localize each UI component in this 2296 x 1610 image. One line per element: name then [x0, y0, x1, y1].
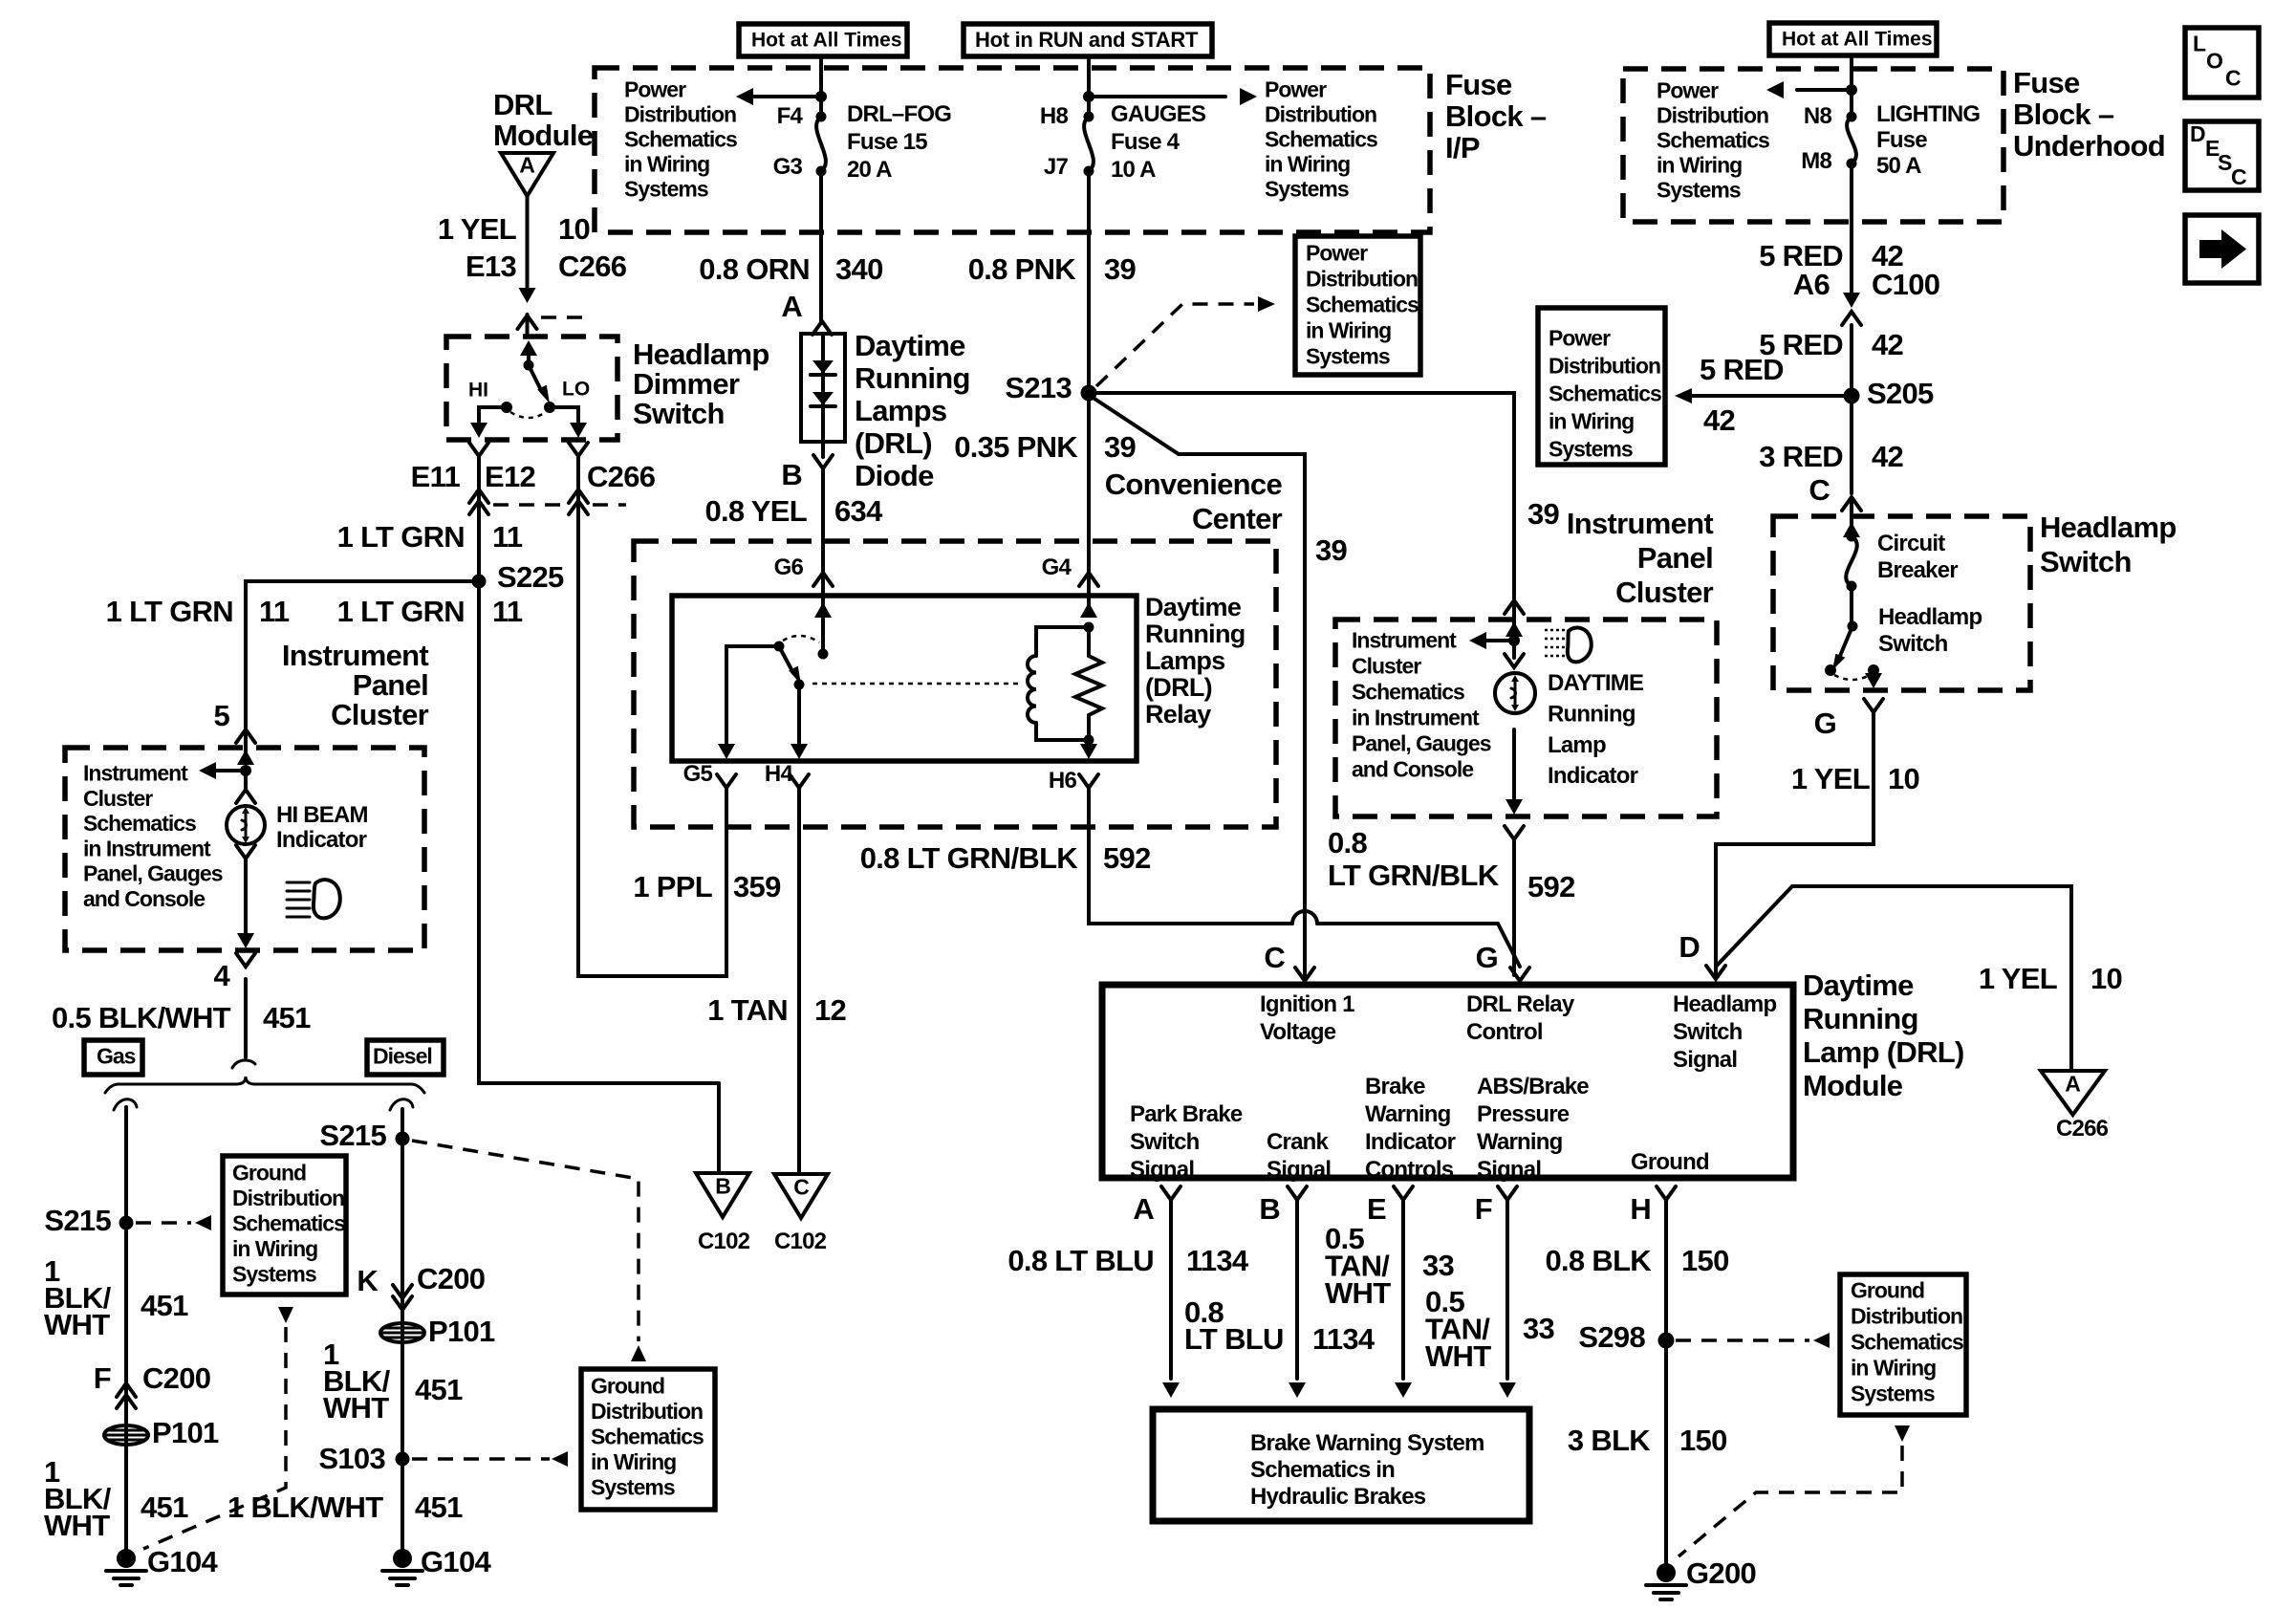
- pin H6: [1049, 768, 1098, 794]
- svg-text:39: 39: [1104, 430, 1137, 464]
- ground distribution box (S298): [1840, 1274, 1966, 1415]
- label Instrument Panel Cluster (left): [282, 639, 429, 731]
- pin G4: [1042, 555, 1098, 586]
- svg-text:Ground: Ground: [591, 1374, 664, 1399]
- title box Hot at All Times (I/P): [739, 24, 907, 56]
- title box Hot in RUN and START: [964, 24, 1212, 56]
- svg-text:359: 359: [733, 870, 781, 903]
- wire DRL module to dimmer switch (1 YEL 10): [519, 196, 536, 337]
- fuse LIGHTING 50A: [1847, 112, 1857, 169]
- wire E11 to S225 to B triangle: [479, 456, 719, 1173]
- svg-text:P101: P101: [152, 1416, 219, 1449]
- pin J7: [1044, 154, 1069, 180]
- splice S205: [1844, 377, 1935, 410]
- svg-text:Power: Power: [1549, 326, 1611, 351]
- svg-text:10: 10: [2090, 962, 2122, 995]
- svg-text:Schematics: Schematics: [232, 1211, 345, 1236]
- label Power Distribution Schematics in Wiring Systems (H8): [1265, 77, 1377, 202]
- svg-text:Circuit: Circuit: [1877, 531, 1945, 556]
- svg-text:Systems: Systems: [232, 1262, 316, 1287]
- svg-text:Distribution: Distribution: [1851, 1304, 1962, 1329]
- svg-text:451: 451: [141, 1490, 188, 1524]
- ground G104 (gas): [106, 1545, 218, 1585]
- svg-text:Instrument: Instrument: [1352, 628, 1457, 653]
- svg-text:F: F: [1475, 1192, 1492, 1226]
- svg-text:Daytime: Daytime: [855, 329, 965, 362]
- label Instrument Cluster Schematics in Instrument Panel Gauges and Console (right): [1352, 628, 1491, 782]
- svg-text:Module: Module: [1803, 1069, 1903, 1102]
- svg-text:Schematics: Schematics: [1549, 381, 1661, 406]
- labels E11 E12 C266: [411, 460, 656, 493]
- svg-text:E12: E12: [485, 460, 535, 493]
- svg-text:Fuse: Fuse: [2013, 66, 2080, 99]
- label DRL-FOG Fuse 15 20 A: [847, 101, 951, 183]
- svg-text:39: 39: [1527, 497, 1560, 531]
- svg-text:Warning: Warning: [1365, 1101, 1451, 1127]
- svg-text:Running: Running: [1548, 701, 1635, 727]
- label GAUGES Fuse 4 10 A: [1111, 101, 1206, 183]
- svg-text:0.8 BLK: 0.8 BLK: [1545, 1244, 1652, 1277]
- svg-text:Instrument: Instrument: [1567, 507, 1714, 540]
- svg-text:in Wiring: in Wiring: [1657, 153, 1742, 178]
- label Fuse Block I/P: [1445, 68, 1547, 164]
- svg-text:Convenience: Convenience: [1105, 468, 1283, 501]
- svg-text:50 A: 50 A: [1876, 153, 1921, 179]
- svg-text:A6: A6: [1793, 268, 1830, 301]
- svg-text:F4: F4: [777, 103, 804, 129]
- relay coil: [1028, 622, 1094, 746]
- wire hot feed to fuse F4: [815, 56, 827, 117]
- svg-text:in Wiring: in Wiring: [591, 1449, 676, 1474]
- pin G (headlamp switch): [1814, 699, 1883, 740]
- svg-text:Distribution: Distribution: [591, 1399, 703, 1424]
- svg-text:Schematics: Schematics: [1265, 127, 1377, 152]
- dashed reference S103 to ground distribution: [412, 1451, 568, 1467]
- svg-text:Relay: Relay: [1145, 700, 1211, 729]
- svg-text:in Wiring: in Wiring: [1306, 318, 1391, 343]
- svg-text:Ground: Ground: [1851, 1278, 1924, 1303]
- svg-text:Voltage: Voltage: [1260, 1019, 1336, 1045]
- ground G200: [1646, 1556, 1756, 1599]
- label Headlamp Switch (big): [2040, 511, 2177, 578]
- label 3 RED 42: [1759, 440, 1903, 473]
- pin G6: [774, 555, 833, 586]
- svg-text:D: D: [2190, 121, 2206, 146]
- svg-text:HI: HI: [468, 380, 488, 402]
- svg-text:1134: 1134: [1186, 1244, 1249, 1277]
- svg-text:in Wiring: in Wiring: [1851, 1356, 1936, 1381]
- svg-text:10: 10: [1888, 762, 1919, 795]
- svg-text:Switch: Switch: [1130, 1129, 1200, 1155]
- label 1 LT GRN 11 (below S225): [337, 595, 523, 628]
- svg-text:L: L: [2193, 32, 2206, 56]
- dashed reference S213 to power distribution: [1096, 296, 1275, 386]
- module pin label Ground: [1631, 1149, 1709, 1175]
- svg-text:WHT: WHT: [1325, 1276, 1391, 1310]
- label 1 BLK/WHT 451 (gas lower): [44, 1455, 188, 1542]
- svg-text:Brake Warning System: Brake Warning System: [1250, 1430, 1484, 1456]
- svg-text:E13: E13: [466, 250, 517, 283]
- ground G104 (diesel): [382, 1545, 491, 1585]
- svg-text:42: 42: [1872, 440, 1903, 473]
- svg-text:G: G: [1814, 707, 1836, 740]
- module pin label Ignition 1 Voltage: [1260, 991, 1354, 1045]
- inline connector P101 (gas): [104, 1416, 219, 1449]
- svg-text:1 YEL: 1 YEL: [1791, 762, 1870, 795]
- svg-text:Cluster: Cluster: [331, 698, 429, 731]
- svg-text:LT BLU: LT BLU: [1184, 1322, 1284, 1356]
- svg-text:LIGHTING: LIGHTING: [1876, 101, 1980, 127]
- dimmer LO contact: [544, 379, 590, 414]
- wire fuse G3 to diode: [819, 171, 823, 323]
- svg-text:Ground: Ground: [232, 1161, 306, 1186]
- svg-text:1 PPL: 1 PPL: [633, 870, 712, 903]
- svg-text:Gas: Gas: [97, 1044, 136, 1069]
- svg-text:340: 340: [835, 252, 883, 286]
- svg-text:in Wiring: in Wiring: [1265, 152, 1350, 177]
- module pin label Brake Warning Indicator Controls: [1365, 1074, 1456, 1183]
- label 0.5 TAN/WHT 33 (F): [1425, 1285, 1555, 1373]
- svg-text:42: 42: [1872, 328, 1903, 361]
- pin 4: [213, 959, 230, 992]
- dimmer travel arc: [510, 412, 546, 418]
- relay H4 contact wire: [791, 680, 808, 760]
- svg-text:G6: G6: [774, 555, 804, 580]
- connector triangle A (C266 bottom): [2041, 1071, 2109, 1142]
- svg-text:1 YEL: 1 YEL: [438, 212, 516, 246]
- svg-text:DRL Relay: DRL Relay: [1466, 991, 1575, 1017]
- svg-text:0.8: 0.8: [1328, 826, 1367, 859]
- relay coil link (dashed): [812, 683, 1023, 685]
- svg-text:C102: C102: [698, 1229, 750, 1254]
- pin 5: [213, 699, 229, 732]
- svg-text:4: 4: [213, 959, 230, 992]
- wire hot to lighting fuse: [1846, 56, 1857, 117]
- svg-text:Panel: Panel: [353, 668, 428, 702]
- svg-text:(DRL): (DRL): [1145, 673, 1212, 702]
- splice S213: [1005, 371, 1096, 404]
- svg-text:G4: G4: [1042, 555, 1072, 580]
- svg-text:Block –: Block –: [1445, 99, 1547, 133]
- svg-text:and Console: and Console: [1352, 757, 1473, 782]
- pin D (module): [1679, 930, 1725, 979]
- svg-text:Fuse: Fuse: [1445, 68, 1512, 101]
- svg-text:C266: C266: [587, 460, 656, 493]
- svg-text:S215: S215: [44, 1204, 111, 1237]
- svg-text:J7: J7: [1044, 154, 1069, 180]
- svg-text:Power: Power: [1657, 78, 1719, 103]
- svg-text:ABS/Brake: ABS/Brake: [1477, 1074, 1589, 1099]
- wire diode to relay G6: [821, 442, 825, 574]
- svg-text:(DRL): (DRL): [855, 426, 932, 460]
- svg-text:Systems: Systems: [591, 1475, 675, 1500]
- svg-text:and Console: and Console: [83, 886, 205, 911]
- svg-text:LO: LO: [562, 379, 590, 401]
- svg-text:Fuse: Fuse: [1876, 127, 1927, 153]
- svg-text:Cluster: Cluster: [1615, 576, 1714, 609]
- svg-text:N8: N8: [1804, 103, 1832, 129]
- label HI BEAM Indicator: [276, 802, 368, 853]
- HI BEAM indicator lamp: [227, 806, 265, 844]
- label 39 (indicator wire): [1527, 497, 1560, 531]
- module pin label Crank Signal: [1267, 1129, 1331, 1183]
- splice S225: [472, 560, 565, 594]
- relay G6 contact arrow: [814, 574, 832, 660]
- splice S103: [318, 1442, 409, 1475]
- label Headlamp Switch (small): [1878, 604, 1982, 657]
- svg-text:Signal: Signal: [1673, 1047, 1737, 1073]
- svg-text:K: K: [357, 1264, 379, 1297]
- svg-text:Systems: Systems: [1549, 437, 1633, 462]
- svg-text:0.8 PNK: 0.8 PNK: [968, 252, 1077, 286]
- module pin label Park Brake Switch Signal: [1130, 1101, 1243, 1183]
- svg-text:Headlamp: Headlamp: [2040, 511, 2177, 544]
- svg-text:C100: C100: [1872, 268, 1939, 301]
- label 0.8 LT GRN/BLK 592 (H6): [860, 841, 1151, 875]
- label 39 (ignition wire): [1315, 533, 1348, 567]
- convenience center dashed box: [634, 541, 1276, 827]
- label 1 BLK/WHT 451 (gas upper): [44, 1254, 188, 1341]
- svg-text:Diesel: Diesel: [373, 1044, 432, 1069]
- svg-text:1 YEL: 1 YEL: [1979, 962, 2057, 995]
- wire D to connector A C266: [1716, 886, 2071, 1071]
- svg-text:12: 12: [814, 993, 846, 1027]
- svg-text:Headlamp: Headlamp: [633, 337, 769, 371]
- svg-text:G104: G104: [147, 1545, 218, 1578]
- label Headlamp Dimmer Switch: [633, 337, 769, 430]
- ground distribution box (S215): [223, 1156, 346, 1295]
- svg-text:Schematics: Schematics: [1851, 1330, 1963, 1355]
- label Fuse Block Underhood: [2013, 66, 2165, 163]
- svg-text:42: 42: [1703, 403, 1735, 437]
- headlamp dimmer switch dashed box: [446, 337, 617, 440]
- splice S215 (diesel): [319, 1119, 409, 1152]
- wire headlamp switch G to DRL module D: [1716, 712, 1874, 976]
- connector chevron below HI BEAM lamp: [236, 845, 255, 935]
- svg-text:G3: G3: [773, 154, 803, 180]
- DRL diode box: [801, 334, 845, 442]
- svg-text:C200: C200: [142, 1361, 210, 1395]
- label 5 RED 42 / A6 C100: [1759, 239, 1939, 301]
- circuit breaker: [1846, 536, 1857, 592]
- svg-text:Running: Running: [855, 361, 970, 395]
- inline connector P101 (diesel): [380, 1315, 495, 1348]
- svg-text:H: H: [1630, 1192, 1651, 1226]
- pin A (diode): [781, 290, 802, 323]
- svg-text:HI BEAM: HI BEAM: [276, 802, 368, 828]
- svg-text:Lamps: Lamps: [1145, 646, 1225, 675]
- label 1 PPL 359: [633, 870, 781, 903]
- svg-text:Breaker: Breaker: [1877, 557, 1958, 583]
- svg-text:C200: C200: [417, 1262, 485, 1295]
- dashed reference S298 to ground distribution: [1676, 1333, 1830, 1348]
- connector chevron into diode: [812, 321, 832, 335]
- svg-text:0.8 LT GRN/BLK: 0.8 LT GRN/BLK: [860, 841, 1079, 875]
- connector chevrons E11 E12: [469, 443, 588, 456]
- svg-text:0.8 LT BLU: 0.8 LT BLU: [1007, 1244, 1154, 1277]
- svg-text:39: 39: [1104, 252, 1137, 286]
- arrow S205 to power distribution: [1675, 388, 1844, 403]
- connector triangle C (C102): [774, 1174, 828, 1254]
- svg-text:39: 39: [1315, 533, 1348, 567]
- pin G5: [683, 761, 736, 788]
- svg-text:150: 150: [1679, 1424, 1727, 1457]
- svg-text:in Wiring: in Wiring: [232, 1236, 317, 1261]
- connector chevron below diode: [813, 455, 833, 468]
- wire S213 to ignition 1 voltage (0.35 PNK): [1094, 399, 1305, 979]
- pin F4: [777, 103, 804, 129]
- wire S205 to headlamp switch: [1850, 396, 1853, 493]
- svg-text:GAUGES: GAUGES: [1111, 101, 1206, 127]
- svg-text:Schematics: Schematics: [591, 1425, 704, 1449]
- headlamp switch entry arrow: [1843, 499, 1860, 542]
- svg-text:D: D: [1679, 930, 1700, 964]
- fuse GAUGES Fuse 4 10A: [1084, 112, 1094, 177]
- instrument panel cluster dashed box (left): [65, 748, 424, 950]
- svg-text:1 LT GRN: 1 LT GRN: [337, 595, 465, 628]
- svg-text:10: 10: [558, 212, 590, 246]
- connector C100: [1842, 293, 1861, 388]
- label Instrument Cluster Schematics in Instrument Panel Gauges and Console (left): [83, 761, 223, 912]
- connector C266 crossing: [469, 490, 626, 514]
- cluster entry arrow (right): [1505, 602, 1523, 646]
- svg-text:592: 592: [1527, 870, 1575, 903]
- svg-text:Distribution: Distribution: [1265, 102, 1376, 127]
- svg-text:Signal: Signal: [1267, 1157, 1331, 1183]
- label 0.35 PNK 39: [954, 430, 1136, 464]
- pin B (diode): [781, 458, 802, 491]
- svg-text:Systems: Systems: [1851, 1382, 1935, 1406]
- svg-text:A: A: [519, 153, 534, 178]
- svg-text:A: A: [781, 290, 802, 323]
- dimmer HI contact: [468, 380, 512, 414]
- svg-text:Underhood: Underhood: [2013, 129, 2165, 163]
- svg-text:M8: M8: [1801, 148, 1831, 174]
- svg-text:Ignition 1: Ignition 1: [1260, 991, 1354, 1017]
- label 1 YEL 10 (G wire): [1791, 762, 1919, 795]
- svg-text:Power: Power: [1265, 77, 1327, 102]
- diode elements: [811, 334, 835, 442]
- svg-text:WHT: WHT: [1425, 1339, 1491, 1373]
- DAYTIME running lamp indicator: [1495, 673, 1535, 713]
- svg-text:Power: Power: [1306, 241, 1368, 266]
- svg-text:B: B: [781, 458, 802, 491]
- svg-text:0.8 ORN: 0.8 ORN: [699, 252, 810, 286]
- svg-text:0.35 PNK: 0.35 PNK: [954, 430, 1078, 464]
- cluster exit arrow (right): [1505, 729, 1523, 815]
- power distribution box (S205): [1538, 308, 1665, 465]
- svg-text:Warning: Warning: [1477, 1129, 1563, 1155]
- svg-text:DAYTIME: DAYTIME: [1548, 670, 1644, 696]
- svg-text:Schematics: Schematics: [1306, 293, 1419, 317]
- svg-text:C266: C266: [558, 250, 627, 283]
- svg-text:Headlamp: Headlamp: [1673, 991, 1776, 1017]
- svg-text:Systems: Systems: [1265, 177, 1349, 202]
- svg-text:C: C: [1264, 941, 1285, 974]
- pin C (headlamp switch): [1809, 473, 1861, 511]
- dashed reference below S298 box: [1679, 1425, 1910, 1556]
- svg-text:WHT: WHT: [44, 1308, 110, 1341]
- svg-text:Instrument: Instrument: [83, 761, 188, 786]
- svg-text:Distribution: Distribution: [624, 102, 736, 127]
- svg-text:S298: S298: [1578, 1320, 1645, 1354]
- label 0.8 LT BLU 1134 (lower): [1184, 1295, 1375, 1356]
- wire fuse J7 to S213: [1087, 171, 1091, 574]
- svg-text:Schematics: Schematics: [1657, 128, 1769, 153]
- svg-text:P101: P101: [428, 1315, 495, 1348]
- svg-text:Lamp (DRL): Lamp (DRL): [1803, 1035, 1964, 1069]
- connector F C200: [94, 1361, 211, 1409]
- module pin label DRL Relay Control: [1466, 991, 1575, 1045]
- ground distribution box (S103): [581, 1369, 715, 1510]
- Gas box: [84, 1040, 142, 1075]
- arrow to power distribution (left): [736, 88, 821, 105]
- connector K C200: [357, 1262, 485, 1310]
- svg-text:Fuse 4: Fuse 4: [1111, 129, 1180, 155]
- svg-text:WHT: WHT: [44, 1509, 110, 1542]
- svg-text:451: 451: [415, 1490, 463, 1524]
- svg-text:Ground: Ground: [1631, 1149, 1709, 1175]
- svg-text:Headlamp: Headlamp: [1878, 604, 1982, 630]
- svg-text:F: F: [94, 1361, 111, 1395]
- svg-text:Running: Running: [1145, 620, 1245, 648]
- svg-text:Panel: Panel: [1637, 541, 1713, 575]
- svg-text:33: 33: [1422, 1249, 1455, 1282]
- headlamp switch output arrow: [1865, 670, 1882, 688]
- svg-text:S103: S103: [318, 1442, 385, 1475]
- svg-text:H8: H8: [1040, 103, 1069, 129]
- splice S215 (gas): [44, 1204, 133, 1237]
- svg-text:3 RED: 3 RED: [1759, 440, 1843, 473]
- svg-text:Systems: Systems: [624, 177, 708, 202]
- svg-text:Switch: Switch: [2040, 545, 2132, 578]
- svg-text:C: C: [2225, 66, 2241, 91]
- label DRL Module: [493, 88, 594, 152]
- LOC box: [2185, 28, 2259, 98]
- svg-text:Module: Module: [493, 119, 594, 152]
- svg-text:Cluster: Cluster: [1352, 654, 1421, 679]
- svg-text:I/P: I/P: [1445, 131, 1480, 164]
- label 3 BLK 150: [1568, 1424, 1727, 1457]
- svg-text:Running: Running: [1803, 1002, 1918, 1035]
- relay switch pivot: [774, 642, 785, 652]
- svg-text:451: 451: [263, 1001, 311, 1034]
- relay switch arm: [779, 646, 801, 685]
- splice S298: [1578, 1320, 1674, 1354]
- power distribution box (S213): [1295, 236, 1420, 375]
- svg-text:in Instrument: in Instrument: [83, 836, 211, 860]
- svg-text:1 LT GRN: 1 LT GRN: [337, 520, 465, 554]
- wire gas branch to G104: [124, 1107, 128, 1558]
- svg-text:in Wiring: in Wiring: [1549, 409, 1634, 434]
- relay resistor: [1075, 575, 1102, 759]
- svg-text:Hot in RUN and START: Hot in RUN and START: [975, 28, 1199, 52]
- svg-text:Distribution: Distribution: [232, 1186, 344, 1210]
- dimmer switch arm: [529, 365, 550, 403]
- label 0.8 LT GRN/BLK 592 (indicator): [1328, 826, 1575, 903]
- svg-text:Schematics: Schematics: [83, 811, 196, 836]
- svg-text:A: A: [2065, 1072, 2080, 1097]
- svg-text:in Instrument: in Instrument: [1352, 706, 1480, 730]
- pin H4: [765, 761, 809, 788]
- connector triangle A (DRL module, C266): [501, 153, 553, 197]
- svg-text:592: 592: [1103, 841, 1151, 875]
- svg-text:G: G: [1476, 941, 1498, 974]
- svg-text:Hot at All Times: Hot at All Times: [1782, 29, 1933, 51]
- next-page arrow box: [2185, 215, 2259, 283]
- svg-text:O: O: [2206, 49, 2222, 74]
- svg-text:Park Brake: Park Brake: [1130, 1101, 1243, 1127]
